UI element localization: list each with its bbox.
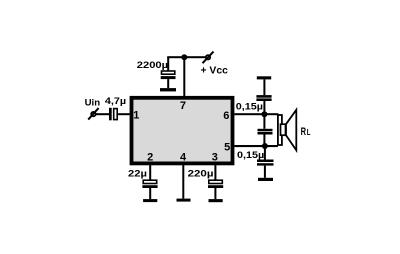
wire pin 3 down bbox=[214, 163, 216, 180]
ground (below C5) bbox=[258, 178, 273, 181]
svg-text:6: 6 bbox=[223, 110, 229, 122]
wire node A up bbox=[263, 101, 265, 115]
capacitor C2 4,7µ bbox=[109, 108, 117, 121]
svg-text:5: 5 bbox=[224, 142, 230, 154]
capacitor C1 2200µ bbox=[161, 57, 176, 88]
svg-text:2200µ: 2200µ bbox=[137, 60, 168, 70]
wire top horizontal (cap to Vcc terminal) bbox=[167, 56, 205, 58]
node B junction dot bbox=[262, 143, 268, 149]
svg-text:220µ: 220µ bbox=[188, 168, 214, 178]
terminal + Vcc bbox=[203, 52, 214, 64]
capacitor C4 0,15µ (middle, between pins 6 and 5) bbox=[258, 114, 273, 146]
capacitor C6 22µ bbox=[142, 180, 157, 199]
svg-text:Uin: Uin bbox=[85, 98, 101, 108]
svg-text:R: R bbox=[301, 126, 307, 138]
ground (pin 4) bbox=[177, 199, 191, 202]
svg-text:3: 3 bbox=[212, 151, 218, 163]
IC U1 body bbox=[132, 98, 233, 164]
svg-text:0,15µ: 0,15µ bbox=[237, 150, 264, 160]
ground (above C3) bbox=[257, 76, 271, 79]
wire C2 to pin 1 bbox=[118, 113, 130, 115]
terminal Uin bbox=[88, 108, 98, 120]
speaker RL bbox=[278, 110, 296, 150]
wire pin 5 to node B bbox=[234, 145, 278, 147]
wire vertical junction to pin 7 bbox=[183, 57, 185, 96]
svg-text:1: 1 bbox=[133, 110, 139, 122]
wire pin 2 down bbox=[149, 163, 151, 180]
svg-text:22µ: 22µ bbox=[128, 168, 147, 178]
svg-text:+ Vcc: + Vcc bbox=[201, 66, 229, 77]
svg-text:2: 2 bbox=[147, 151, 153, 163]
capacitor C7 220µ bbox=[208, 180, 223, 199]
svg-text:0,15µ: 0,15µ bbox=[236, 102, 263, 112]
junction dot pin7 node bbox=[181, 54, 187, 60]
wire pin 4 down bbox=[182, 163, 184, 198]
node A junction dot bbox=[261, 111, 267, 117]
wire node A to speaker bbox=[264, 113, 278, 115]
wire Uin to C2 bbox=[96, 113, 110, 115]
ground (below C1) bbox=[160, 88, 176, 91]
svg-text:4,7µ: 4,7µ bbox=[105, 96, 126, 106]
ground (below C6) bbox=[143, 199, 157, 202]
capacitor C5 0,15µ (lower) bbox=[257, 146, 274, 178]
ground (below C7) bbox=[209, 199, 223, 202]
svg-text:L: L bbox=[307, 128, 311, 137]
svg-text:7: 7 bbox=[180, 100, 186, 112]
wire pin 6 to node A bbox=[234, 113, 264, 115]
svg-text:4: 4 bbox=[180, 152, 187, 164]
capacitor C3 0,15µ (upper) bbox=[256, 79, 271, 101]
